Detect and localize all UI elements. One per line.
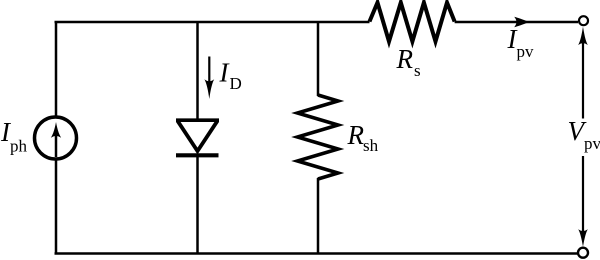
current source arrow shaft: [55, 133, 58, 157]
wire diode branch bottom: [196, 156, 199, 254]
V_pv upper arrowhead (points up): [578, 27, 588, 46]
I_D current arrow shaft: [208, 57, 210, 86]
wire shunt branch top: [317, 22, 320, 96]
wire top horizontal right segment: [455, 21, 578, 24]
diode D triangle (hollow, square top corners): [176, 118, 219, 154]
V_pv lower arrowhead (points down): [578, 229, 588, 247]
svg-text:sh: sh: [363, 136, 379, 155]
wire left vertical bottom: [55, 159, 58, 254]
svg-text:s: s: [414, 61, 421, 80]
wire shunt branch bottom: [317, 178, 320, 254]
terminal top right: [579, 16, 588, 25]
wire diode branch top: [196, 22, 199, 120]
V_pv arrow lower shaft: [582, 156, 584, 234]
svg-text:D: D: [230, 74, 242, 93]
resistor R_sh zigzag: [298, 95, 339, 179]
wire bottom horizontal: [55, 252, 578, 255]
current source arrowhead: [51, 122, 61, 138]
resistor R_s zigzag: [370, 3, 455, 42]
wire top horizontal left segment: [55, 21, 370, 24]
I_D arrowhead: [204, 79, 214, 99]
I_pv current arrowhead on top wire: [514, 17, 529, 27]
svg-text:pv: pv: [584, 134, 600, 153]
wire left vertical top: [55, 22, 58, 117]
current source I_ph circle: [35, 117, 77, 159]
svg-text:R: R: [396, 44, 414, 74]
svg-text:R: R: [347, 120, 365, 150]
V_pv arrow upper shaft: [582, 40, 584, 119]
svg-text:ph: ph: [10, 137, 28, 156]
diode cathode bar: [176, 153, 219, 157]
svg-text:pv: pv: [517, 42, 535, 61]
terminal bottom right: [578, 248, 588, 258]
